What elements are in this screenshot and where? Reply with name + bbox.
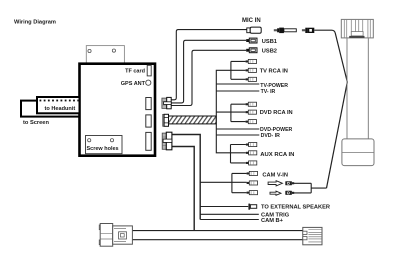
svg-text:TO EXTERNAL SPEAKER: TO EXTERNAL SPEAKER <box>261 205 330 211</box>
svg-text:Wiring Diagram: Wiring Diagram <box>14 20 56 26</box>
svg-text:DVD-POWER: DVD-POWER <box>260 127 293 133</box>
svg-text:DVD RCA IN: DVD RCA IN <box>260 110 293 116</box>
svg-text:MIC IN: MIC IN <box>242 18 261 24</box>
svg-text:GPS ANT: GPS ANT <box>121 81 146 87</box>
svg-text:to Headunit: to Headunit <box>45 106 76 112</box>
svg-text:TV RCA IN: TV RCA IN <box>260 68 288 74</box>
svg-text:TV-POWER: TV-POWER <box>260 83 288 89</box>
svg-text:CAM V-IN: CAM V-IN <box>262 173 288 179</box>
svg-text:USB2: USB2 <box>262 49 277 55</box>
svg-text:USB1: USB1 <box>262 39 277 45</box>
svg-text:TF card: TF card <box>125 69 145 75</box>
svg-text:CAM B+: CAM B+ <box>261 218 284 224</box>
svg-text:AUX RCA IN: AUX RCA IN <box>260 152 294 158</box>
svg-text:to Screen: to Screen <box>23 120 49 126</box>
svg-text:Screw holes: Screw holes <box>87 146 119 152</box>
svg-text:TV- IR: TV- IR <box>261 89 276 95</box>
svg-text:DVD- IR: DVD- IR <box>261 133 281 139</box>
